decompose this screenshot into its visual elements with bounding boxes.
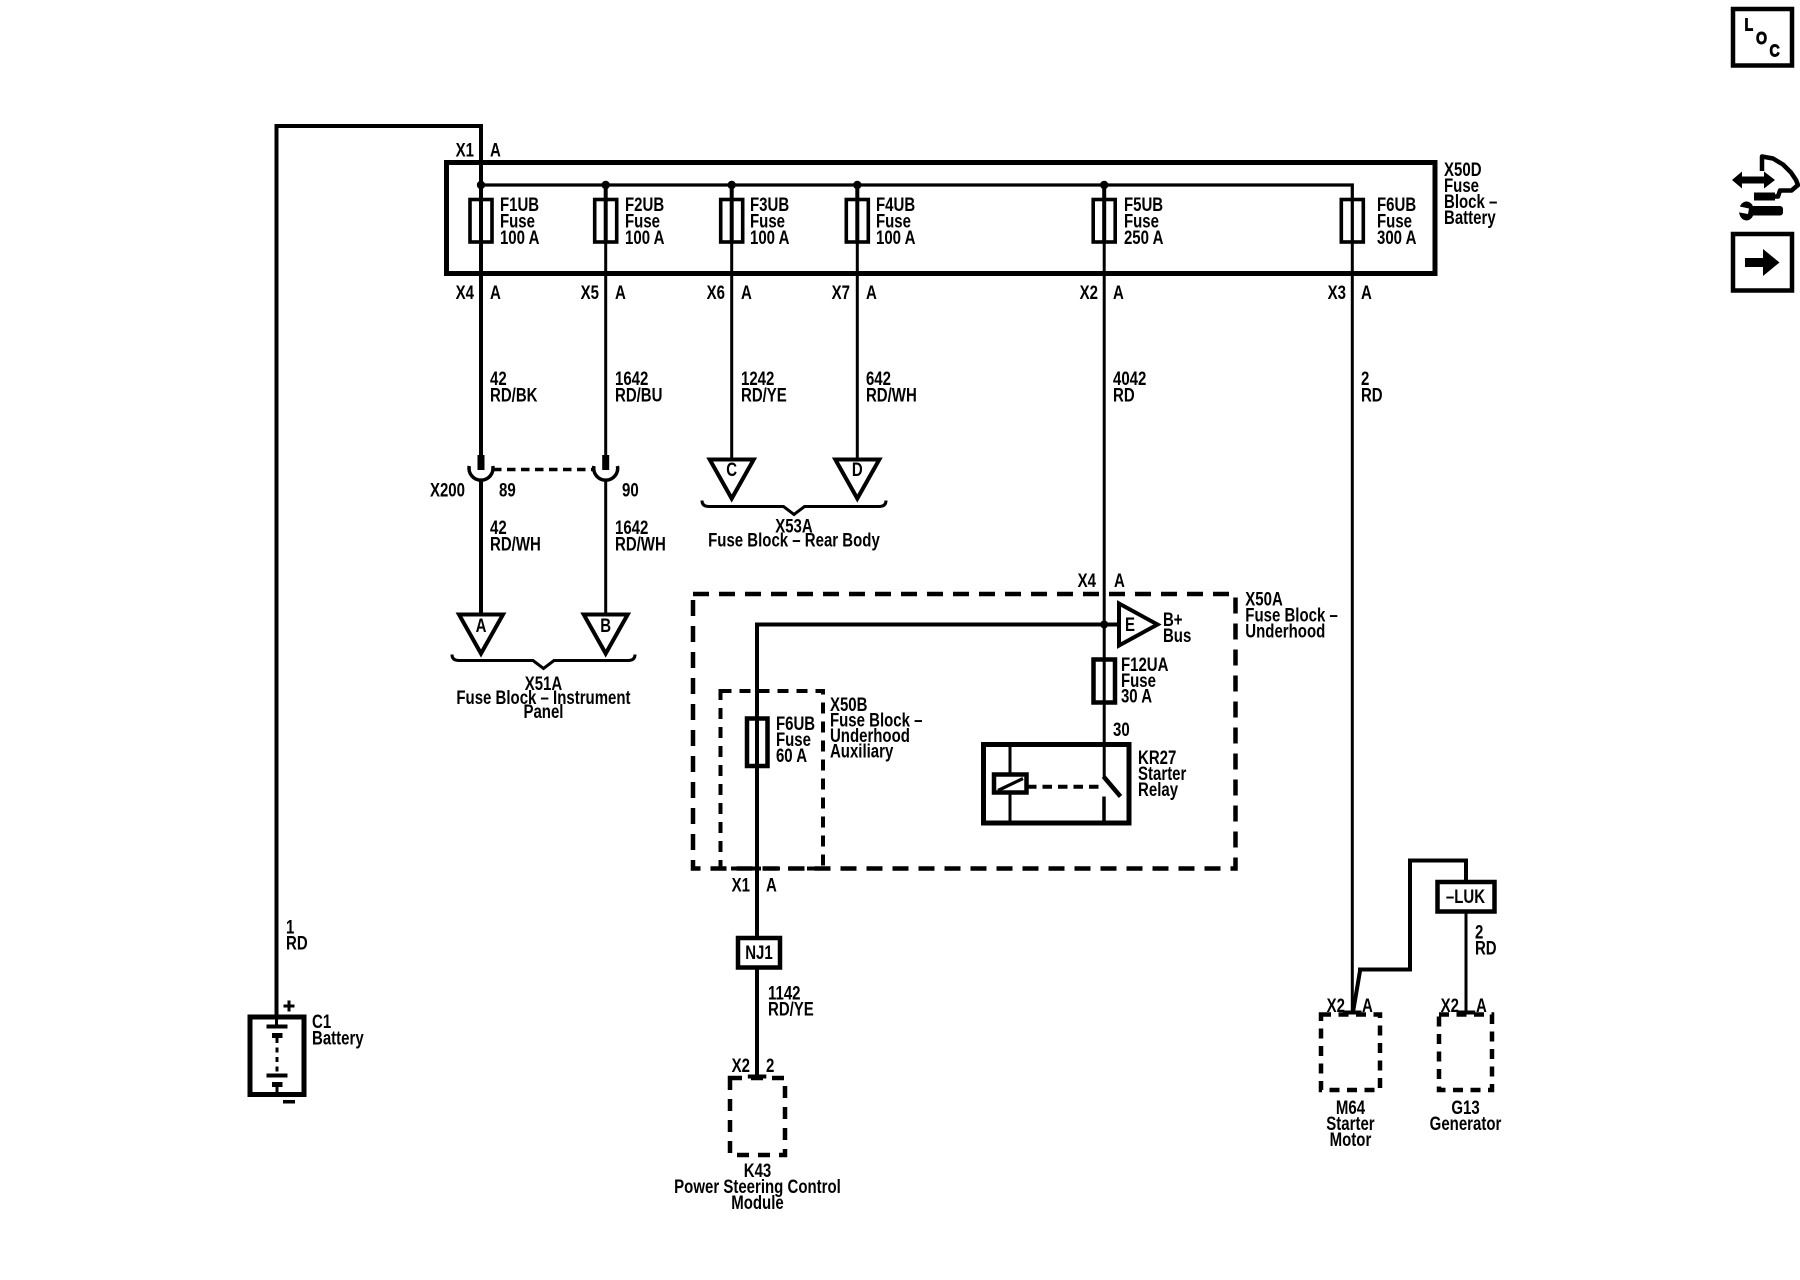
- svg-text:A: A: [1476, 995, 1487, 1016]
- svg-text:X2: X2: [1441, 995, 1459, 1016]
- fuse F3UB: [721, 200, 743, 243]
- wire 42 RD/WH to triangle A: [479, 480, 483, 615]
- svg-text:Panel: Panel: [523, 701, 563, 722]
- wire X7 to triangle D: [856, 241, 859, 461]
- svg-text:X4: X4: [456, 282, 475, 303]
- fuse stem wires: [604, 185, 608, 243]
- svg-text:A: A: [1113, 282, 1124, 303]
- svg-text:–LUK: –LUK: [1446, 886, 1486, 907]
- connector X200 pin 89: [469, 455, 493, 480]
- battery minus sign: [283, 1100, 295, 1104]
- fuse F12UA: [1094, 660, 1116, 703]
- svg-text:A: A: [490, 140, 501, 161]
- svg-text:A: A: [866, 282, 877, 303]
- fuse block X50D outline: [447, 163, 1436, 274]
- junction dots on bus: [477, 181, 485, 189]
- fuse block X50B dashed outline: [721, 691, 824, 869]
- icon forward arrow box: [1733, 234, 1792, 291]
- svg-text:F2UBFuse100 A: F2UBFuse100 A: [625, 194, 664, 248]
- wire X6 to triangle C: [730, 241, 733, 461]
- brace X51A: [452, 655, 635, 669]
- svg-text:A: A: [766, 875, 777, 896]
- triangle connector D: [835, 460, 879, 499]
- generator G13 dashed outline: [1439, 1015, 1492, 1091]
- pin bar K43 X2-2: [748, 1075, 767, 1079]
- svg-text:A: A: [1361, 282, 1372, 303]
- icon power distribution (arrow outline, double arrow, wrench): [1732, 157, 1798, 221]
- relay KR27 switch: [1104, 745, 1121, 823]
- relay KR27 actuation dashed link: [1027, 785, 1102, 789]
- svg-text:A: A: [1114, 570, 1125, 591]
- svg-text:C: C: [1770, 41, 1781, 61]
- fuse F5UB: [1093, 200, 1115, 243]
- triangle connector C: [710, 460, 754, 499]
- dashed connector link X200: [493, 468, 594, 472]
- icon LOC box: [1733, 9, 1792, 66]
- svg-text:NJ1: NJ1: [745, 942, 773, 963]
- svg-text:B: B: [600, 615, 611, 636]
- svg-text:X1: X1: [732, 875, 751, 896]
- motor M64 dashed outline: [1321, 1015, 1380, 1091]
- svg-text:90: 90: [622, 480, 639, 501]
- svg-text:X5: X5: [581, 282, 600, 303]
- splice NJ1 box: [738, 938, 780, 968]
- svg-text:X200: X200: [430, 480, 465, 501]
- svg-text:X6: X6: [707, 282, 725, 303]
- triangle connector B: [584, 615, 628, 654]
- wire 1642 RD/WH to triangle B: [604, 480, 607, 615]
- svg-text:F4UBFuse100 A: F4UBFuse100 A: [876, 194, 915, 248]
- svg-text:A: A: [490, 282, 501, 303]
- svg-text:F1UBFuse100 A: F1UBFuse100 A: [500, 194, 539, 248]
- fuse F2UB: [595, 200, 617, 243]
- svg-text:X3: X3: [1328, 282, 1346, 303]
- svg-text:X1: X1: [456, 140, 475, 161]
- svg-text:Generator: Generator: [1430, 1113, 1502, 1134]
- pin bar G13 X2-A: [1457, 1011, 1476, 1015]
- wire battery feed to X1: [277, 126, 484, 1016]
- svg-text:A: A: [476, 615, 487, 636]
- svg-text:C: C: [726, 459, 737, 480]
- svg-text:A: A: [741, 282, 752, 303]
- fuse F6UB: [1341, 200, 1363, 243]
- svg-text:X4: X4: [1078, 570, 1097, 591]
- svg-text:X2: X2: [1080, 282, 1098, 303]
- battery C1: [250, 1016, 304, 1095]
- battery plus sign: [284, 1001, 295, 1012]
- triangle connector E (B+ Bus): [1119, 604, 1158, 646]
- connector X200 pin 90: [594, 455, 618, 480]
- fuse block X50A dashed outline: [693, 594, 1236, 869]
- svg-text:E: E: [1125, 614, 1135, 635]
- svg-text:Motor: Motor: [1330, 1129, 1372, 1150]
- connector -LUK box: [1438, 882, 1495, 912]
- module K43 dashed outline: [730, 1078, 785, 1155]
- wire X2 to X50A junction: [1103, 241, 1106, 745]
- svg-text:F3UBFuse100 A: F3UBFuse100 A: [750, 194, 789, 248]
- svg-text:30: 30: [1113, 719, 1130, 740]
- wire loop to -LUK: [1353, 861, 1466, 1013]
- svg-text:X2: X2: [1327, 995, 1345, 1016]
- fuse F6UB 60A: [747, 719, 768, 767]
- svg-text:Fuse Block – Rear Body: Fuse Block – Rear Body: [708, 530, 880, 551]
- fuse F4UB: [846, 200, 868, 243]
- svg-text:89: 89: [499, 480, 516, 501]
- svg-text:A: A: [615, 282, 626, 303]
- wire B+ bus horizontal: [757, 625, 1118, 939]
- wire X1 to X4 through F1UB: [479, 126, 483, 456]
- wire 1142 RD/YE: [755, 968, 759, 1079]
- fuse F1UB: [470, 200, 492, 243]
- wire X5: [604, 241, 607, 456]
- svg-text:F5UBFuse250 A: F5UBFuse250 A: [1124, 194, 1163, 248]
- relay KR27 box: [984, 745, 1130, 824]
- relay KR27 coil pin line: [1009, 745, 1012, 824]
- svg-text:Module: Module: [731, 1192, 783, 1213]
- svg-text:F6UBFuse300 A: F6UBFuse300 A: [1377, 194, 1416, 248]
- svg-text:D: D: [852, 459, 863, 480]
- brace X53A: [702, 501, 886, 515]
- relay KR27 coil: [994, 775, 1027, 793]
- bus wire inside X50D: [481, 185, 1352, 243]
- svg-text:2: 2: [766, 1055, 774, 1076]
- junction dot B+: [1100, 621, 1108, 629]
- pin bar M64 X2-A: [1343, 1011, 1362, 1015]
- svg-text:X2: X2: [732, 1055, 750, 1076]
- svg-text:X7: X7: [832, 282, 850, 303]
- svg-text:A: A: [1362, 995, 1373, 1016]
- wire 2 RD to G13: [1465, 912, 1468, 1015]
- wire X3 to M64: [1351, 241, 1354, 1014]
- svg-text:O: O: [1756, 28, 1767, 48]
- svg-text:L: L: [1745, 15, 1754, 35]
- triangle connector A: [459, 615, 503, 654]
